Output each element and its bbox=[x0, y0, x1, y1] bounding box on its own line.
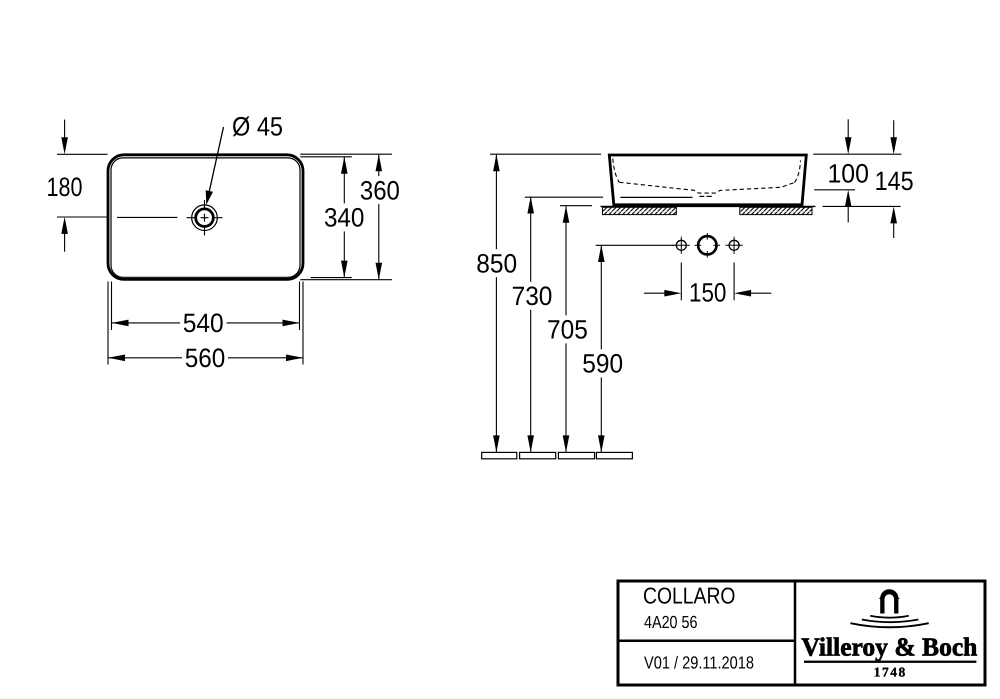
svg-text:340: 340 bbox=[324, 203, 365, 233]
svg-text:705: 705 bbox=[547, 315, 588, 345]
svg-text:590: 590 bbox=[582, 349, 623, 379]
svg-text:1748: 1748 bbox=[874, 665, 907, 680]
svg-text:Ø 45: Ø 45 bbox=[232, 111, 283, 141]
svg-text:540: 540 bbox=[183, 308, 224, 338]
svg-text:180: 180 bbox=[47, 172, 83, 202]
svg-text:730: 730 bbox=[512, 281, 553, 311]
svg-text:V01 / 29.11.2018: V01 / 29.11.2018 bbox=[644, 653, 754, 673]
svg-text:150: 150 bbox=[689, 278, 727, 308]
svg-text:4A20 56: 4A20 56 bbox=[644, 612, 698, 632]
svg-text:COLLARO: COLLARO bbox=[643, 582, 736, 608]
svg-text:100: 100 bbox=[827, 158, 869, 188]
svg-text:850: 850 bbox=[476, 248, 517, 278]
svg-text:360: 360 bbox=[360, 175, 400, 205]
svg-text:Villeroy & Boch: Villeroy & Boch bbox=[801, 633, 978, 662]
svg-text:145: 145 bbox=[875, 166, 914, 196]
svg-text:560: 560 bbox=[185, 343, 226, 373]
